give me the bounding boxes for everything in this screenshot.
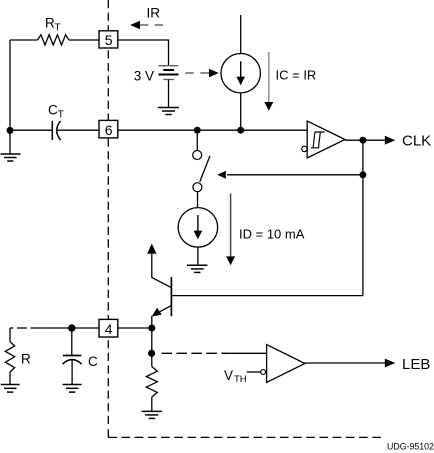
LEB arrowhead	[385, 359, 396, 368]
IC = IR label arrow (gray shaft, black head)	[264, 52, 273, 111]
IC boundary dashed line (vertical)	[107, 0, 109, 424]
switch S1 upper contact	[193, 134, 202, 160]
wire IC source to node	[240, 93, 242, 130]
transistor Q1 base wire	[172, 295, 363, 297]
wire emitter node down	[151, 328, 153, 367]
svg-text:R: R	[21, 352, 31, 367]
pin 6 box	[99, 120, 118, 137]
capacitor C leg	[63, 328, 82, 385]
junction dot CLK	[359, 137, 366, 144]
current source ID circle	[178, 208, 218, 248]
wire pin 6 to schmitt input	[118, 129, 308, 131]
wire pin 5 to battery top	[118, 40, 169, 66]
ground (CT left)	[1, 154, 21, 161]
capacitor CT plates	[52, 121, 60, 140]
svg-text:C: C	[48, 103, 58, 118]
dashed wire LEB sense to comparator	[162, 352, 267, 354]
junction dot CT left	[7, 127, 14, 134]
junction dot emitter node	[148, 325, 155, 332]
wire battery to ground	[168, 80, 170, 108]
junction dot feedback	[359, 171, 366, 178]
wire node A to CT	[10, 129, 52, 131]
svg-text:IC = IR: IC = IR	[276, 68, 317, 83]
wire CT to pin 6	[57, 129, 99, 131]
left vertical wire node A	[9, 40, 11, 154]
comparator U2	[261, 345, 305, 383]
wire comparator output to LEB	[305, 362, 386, 364]
transistor Q1 collector	[147, 244, 171, 288]
svg-text:3 V: 3 V	[134, 68, 154, 83]
transistor Q1 base bar	[170, 277, 172, 316]
switch S1 lower contact	[193, 183, 202, 208]
switch S1 lever	[200, 156, 210, 182]
wire top of current source IC	[240, 15, 242, 54]
feedback wire CLK to base	[362, 140, 364, 295]
pin 4 box	[99, 319, 118, 337]
resistor R leg	[5, 328, 14, 385]
wire pin 4 to emitter node	[118, 327, 152, 329]
junction dot switch top	[194, 127, 201, 134]
junction dot C top	[68, 324, 75, 331]
wire ID source to ground	[197, 247, 199, 265]
ground (battery)	[158, 108, 179, 115]
resistor (emitter) zigzag	[146, 367, 157, 412]
svg-text:TH: TH	[234, 374, 247, 385]
svg-text:C: C	[88, 354, 98, 369]
wire RT to pin 5	[69, 39, 99, 41]
svg-text:T: T	[58, 110, 64, 121]
ground (R)	[1, 385, 20, 393]
label VTH	[224, 368, 247, 385]
pin 5 box	[99, 31, 118, 48]
svg-text:LEB: LEB	[402, 356, 430, 373]
svg-text:4: 4	[105, 321, 113, 337]
ground (emitter resistor)	[142, 411, 162, 418]
svg-text:V: V	[224, 368, 233, 383]
ID = 10 mA label arrow	[226, 194, 235, 266]
dashed drive arrow battery to IC source	[185, 69, 218, 77]
svg-text:6: 6	[105, 122, 113, 138]
svg-text:UDG-95102: UDG-95102	[387, 442, 434, 452]
IR current arrow (gray dashes, black head)	[130, 21, 163, 29]
svg-text:T: T	[55, 23, 61, 34]
current source IC arrow	[236, 61, 245, 85]
wire VTH to comparator	[247, 371, 261, 373]
svg-text:5: 5	[105, 32, 113, 48]
ground (ID source)	[187, 265, 207, 272]
transistor Q1 emitter	[152, 305, 172, 328]
resistor RT zigzag	[38, 35, 70, 45]
svg-text:R: R	[45, 16, 55, 31]
junction dot LEB sense	[148, 350, 155, 357]
wire schmitt output to CLK	[345, 139, 386, 141]
current source ID arrow	[194, 215, 203, 239]
junction dot IC source bottom	[237, 127, 244, 134]
current source IC circle	[221, 53, 260, 92]
ground (C)	[63, 385, 82, 393]
svg-text:IR: IR	[147, 6, 161, 21]
svg-text:CLK: CLK	[402, 133, 431, 150]
battery V1 3V plates	[159, 66, 179, 80]
feedback arrow to switch	[217, 171, 363, 179]
wire R node dashed to pin 4	[10, 327, 99, 329]
svg-text:ID = 10 mA: ID = 10 mA	[239, 227, 305, 242]
wire top-left horizontal (node to RT)	[10, 39, 38, 41]
CLK arrowhead	[385, 136, 396, 145]
IC boundary dashed line (bottom horizontal)	[108, 436, 117, 438]
schmitt trigger U1	[302, 121, 345, 158]
